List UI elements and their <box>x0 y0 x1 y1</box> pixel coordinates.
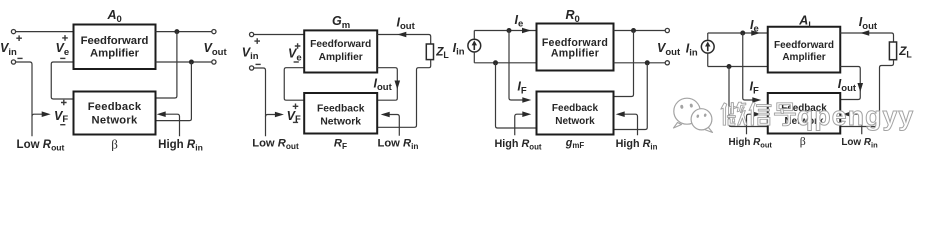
wire Vout+ sense to feedback panel3 <box>614 31 634 97</box>
wire Vout- sense to feedback network <box>156 62 192 121</box>
arrowhead pointing at feedback network input panel3 <box>616 111 625 117</box>
svg-text:Ve: Ve <box>56 41 70 58</box>
svg-text:Vin: Vin <box>0 41 17 58</box>
arrowhead pointing at VF panel2 <box>275 112 284 118</box>
terminal Vout+ panel3 <box>665 28 669 32</box>
wire Vin+ to amplifier input <box>16 31 74 33</box>
svg-text:Vout: Vout <box>657 41 681 58</box>
svg-text:Low Rout: Low Rout <box>17 139 65 153</box>
svg-text:Ve: Ve <box>288 47 302 64</box>
wire amplifier output bottom to Vout- panel3 <box>614 62 668 64</box>
plus sign at VF <box>61 100 67 106</box>
arrowhead IF panel4 <box>752 97 761 103</box>
minus sign under Ve panel2 <box>294 61 299 63</box>
arrowhead Iout pointing left on output wire <box>397 32 406 38</box>
svg-text:Vout: Vout <box>204 41 228 58</box>
svg-text:Iin: Iin <box>686 42 698 59</box>
wire amplifier output top to Vout+ <box>156 31 214 33</box>
wire Vin- down to Low Rout pointer <box>16 62 32 136</box>
svg-text:AI: AI <box>798 14 810 30</box>
svg-text:Low Rin: Low Rin <box>378 137 419 151</box>
wire amplifier output top to Vout+ panel3 <box>614 30 668 32</box>
wire input top to amplifier panel3 <box>474 30 536 32</box>
svg-text:A0: A0 <box>107 8 122 25</box>
svg-text:Amplifier: Amplifier <box>551 48 599 60</box>
svg-text:Low Rin: Low Rin <box>841 137 878 150</box>
arrowhead pointing at feedback network output panel3 <box>522 111 531 117</box>
watermark hanzi xin <box>749 102 771 125</box>
minus sign under VF <box>60 124 65 126</box>
junction on Vout- wire <box>189 60 194 65</box>
minus sign under Ve <box>60 57 65 59</box>
wire Vin+ to amplifier input panel2 <box>254 34 305 36</box>
svg-text:Low Rout: Low Rout <box>252 137 299 151</box>
pointer from High Rout to feedback output panel3 <box>515 114 523 135</box>
watermark wechat logo bubble right <box>691 109 712 133</box>
wire amplifier minus input to feedback output <box>51 62 73 99</box>
svg-text:gmF: gmF <box>565 137 585 150</box>
arrowhead pointing at VF <box>42 111 51 117</box>
junction bottom rail panel4 <box>727 64 732 69</box>
svg-text:Feedback: Feedback <box>317 103 365 114</box>
wire current source top panel3 <box>473 31 475 40</box>
wire Vout+ sense to feedback network <box>156 32 177 98</box>
arrowhead pointing at feedback network output panel4 <box>752 111 761 117</box>
current source Iin panel4 <box>701 40 714 53</box>
wire amplifier minus input to feedback output panel2 <box>284 68 304 101</box>
wire amplifier output to load ZL panel4 <box>840 33 893 42</box>
svg-text:Amplifier: Amplifier <box>319 52 363 63</box>
svg-text:ZL: ZL <box>898 44 912 59</box>
watermark hanzi hao <box>774 103 795 126</box>
svg-text:Network: Network <box>320 116 361 127</box>
plus sign at Vin <box>16 35 22 41</box>
arrowhead pointing at feedback network input <box>157 111 166 117</box>
plus sign at Ve <box>62 35 68 41</box>
svg-text:Iout: Iout <box>838 77 857 94</box>
arrowhead Ie on input wire panel4 <box>751 30 760 36</box>
wire Vout- sense into feedback network panel3 <box>614 63 648 130</box>
wire input top to amplifier panel4 <box>708 32 768 34</box>
junction on Vout- wire panel3 <box>645 60 650 65</box>
svg-text:Feedforward: Feedforward <box>310 39 371 50</box>
svg-text:High Rout: High Rout <box>728 137 772 150</box>
svg-text:Feedback: Feedback <box>552 103 599 114</box>
svg-text:β: β <box>800 134 806 148</box>
feedforward amplifier block AI <box>768 27 841 73</box>
terminal Vout+ <box>212 30 216 34</box>
wire feedback current IF to feedback network panel4 <box>743 33 753 100</box>
junction bottom rail panel3 <box>493 60 498 65</box>
pointer arrow from Low Rout toward VF panel2 <box>266 115 276 117</box>
junction input node panel3 <box>507 28 512 33</box>
arrowhead Iout pointing down panel4 <box>857 83 863 92</box>
svg-text:Amplifier: Amplifier <box>90 47 140 59</box>
svg-text:Ie: Ie <box>515 13 524 30</box>
wire amplifier output to load ZL <box>377 35 431 45</box>
svg-text:Vin: Vin <box>242 45 259 62</box>
terminal Vin+ <box>11 30 15 34</box>
svg-text:Feedforward: Feedforward <box>81 35 149 47</box>
wire Iout down into feedback network panel2 <box>377 68 397 101</box>
arrowhead Ie on input wire panel3 <box>522 28 531 34</box>
arrowhead pointing at feedback network input panel2 <box>381 112 390 118</box>
feedforward amplifier block R0 <box>537 24 614 71</box>
svg-text:Network: Network <box>92 115 138 127</box>
junction on Vout+ wire <box>174 29 179 34</box>
feedforward amplifier block A0 <box>74 25 156 70</box>
wire Iout down into feedback network panel4 <box>840 67 860 100</box>
wire from bottom rail into feedback network panel3 <box>496 63 537 128</box>
svg-text:Iout: Iout <box>374 76 393 93</box>
minus sign at Vin panel2 <box>256 63 261 65</box>
feedback network block <box>74 92 156 135</box>
minus sign at Vin <box>17 57 22 59</box>
wire ZL return into feedback network panel4 <box>840 60 893 127</box>
arrowhead Iout pointing left panel4 <box>860 30 869 36</box>
arrowhead IF panel3 <box>522 97 531 103</box>
svg-text:qpengyy: qpengyy <box>797 101 914 131</box>
wire ZL return into feedback network panel2 <box>377 60 431 128</box>
wire from bottom rail into feedback network panel4 <box>729 67 768 127</box>
svg-text:RF: RF <box>334 137 347 151</box>
feedback network block panel2 <box>304 93 377 134</box>
svg-text:β: β <box>111 137 118 152</box>
svg-text:Gm: Gm <box>332 14 350 31</box>
load ZL panel2 <box>426 44 433 60</box>
svg-text:IF: IF <box>750 80 759 97</box>
terminal Vout- panel3 <box>665 61 669 65</box>
svg-text:IF: IF <box>517 80 526 97</box>
svg-text:Iout: Iout <box>859 15 878 32</box>
wire current source bottom panel4 <box>707 54 709 67</box>
wire Vin- down to Low Rout pointer panel2 <box>254 68 266 136</box>
feedback network block panel4 <box>768 93 841 134</box>
svg-text:Amplifier: Amplifier <box>782 52 825 63</box>
svg-text:Iout: Iout <box>397 15 416 32</box>
junction on Vout+ wire panel3 <box>631 28 636 33</box>
pointer from Low Rin to feedback input panel4 <box>851 114 862 134</box>
pointer arrow from Low Rout toward VF <box>32 114 42 116</box>
pointer from High Rin to feedback input <box>166 114 180 136</box>
current source Iin panel3 <box>468 39 481 52</box>
arrowhead Iout pointing down <box>395 81 401 90</box>
svg-text:Feedback: Feedback <box>88 101 142 113</box>
plus sign at Vin panel2 <box>254 38 260 44</box>
watermark hanzi wei <box>721 102 747 125</box>
svg-text:ZL: ZL <box>435 44 449 59</box>
load ZL panel4 <box>889 42 896 60</box>
wire amplifier output bottom to Vout- <box>156 61 214 63</box>
feedforward amplifier block Gm <box>304 30 377 72</box>
wire current source bottom panel3 <box>473 52 475 63</box>
plus sign at VF panel2 <box>293 104 299 110</box>
svg-text:High Rin: High Rin <box>158 139 203 153</box>
wire current source top panel4 <box>707 33 709 40</box>
terminal Vin- <box>11 60 15 64</box>
svg-text:R0: R0 <box>566 8 580 25</box>
svg-text:Network: Network <box>555 116 595 127</box>
svg-text:VF: VF <box>54 109 68 125</box>
pointer from High Rin to feedback input panel3 <box>625 114 638 135</box>
svg-text:High Rout: High Rout <box>494 138 541 152</box>
svg-text:High Rin: High Rin <box>616 138 658 152</box>
svg-text:Feedforward: Feedforward <box>774 40 834 51</box>
wire input bottom rail panel3 <box>474 62 536 64</box>
terminal Vin+ panel2 <box>250 32 254 36</box>
minus sign under VF panel2 <box>293 121 298 123</box>
wire feedback current IF to feedback network panel3 <box>509 31 523 101</box>
pointer from Low Rin to feedback input panel2 <box>390 115 400 136</box>
arrowhead pointing at feedback network input panel4 <box>842 111 851 117</box>
terminal Vin- panel2 <box>250 66 254 70</box>
watermark wechat logo bubble left <box>674 98 701 128</box>
feedback network block panel3 <box>537 92 614 135</box>
wire input bottom rail panel4 <box>708 66 768 68</box>
pointer from High Rout to feedback output panel4 <box>747 114 753 134</box>
svg-text:Iin: Iin <box>453 41 465 58</box>
terminal Vout- <box>212 60 216 64</box>
junction input node panel4 <box>740 31 745 36</box>
plus sign at Ve panel2 <box>295 43 301 49</box>
